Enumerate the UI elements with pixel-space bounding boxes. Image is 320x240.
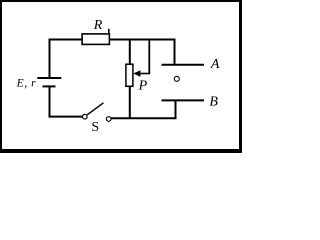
svg-text:A: A: [210, 57, 220, 72]
terminal B line: [162, 99, 205, 101]
battery E,r long plate: [37, 77, 61, 79]
svg-text:E, r: E, r: [16, 78, 37, 90]
svg-text:B: B: [209, 95, 218, 110]
battery E,r short plate: [43, 85, 56, 87]
wire: bottom left horizontal (to switch): [49, 116, 83, 118]
resistor top-right tick: [108, 29, 110, 35]
svg-text:R: R: [93, 18, 103, 33]
svg-text:P: P: [138, 79, 148, 94]
switch S left terminal: [83, 114, 88, 119]
wire: top left segment (battery top to resistor): [49, 39, 83, 41]
open contact circle between A and B: [174, 76, 179, 81]
wire: pot top terminal to top wire: [129, 39, 131, 65]
wire: bottom right horizontal (switch to B branch): [111, 117, 176, 119]
pot wiper arrowhead: [133, 70, 140, 76]
wire: top right segment (resistor to right corner): [109, 39, 176, 41]
wire: right vertical (terminal B down to bottom wire): [175, 100, 177, 118]
wire: left vertical (top wire to battery): [49, 39, 51, 79]
border frame right: [239, 0, 242, 153]
border frame left: [0, 0, 2, 153]
border frame top: [0, 0, 242, 2]
svg-text:S: S: [91, 120, 99, 135]
wire: left vertical (battery to bottom wire): [49, 86, 51, 117]
switch S blade: [87, 103, 103, 115]
wire: pot bottom terminal to bottom wire: [129, 86, 131, 118]
wire: wiper vertical to top wire: [148, 39, 150, 74]
pot wiper horizontal line: [140, 73, 151, 75]
switch S right terminal: [106, 117, 111, 122]
border frame bottom: [0, 149, 242, 153]
potentiometer P vertical box: [126, 64, 133, 86]
terminal A line: [162, 64, 205, 66]
wire: right vertical (top wire down to terminal A): [174, 39, 176, 65]
resistor R: [82, 34, 109, 45]
